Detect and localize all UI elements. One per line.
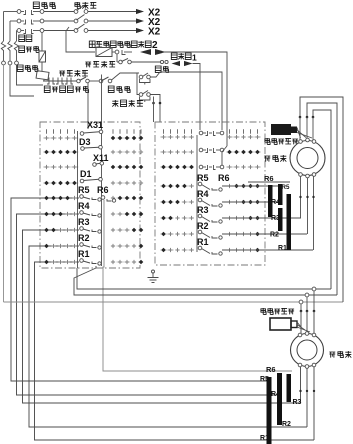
left bus phase wire L3 vertical xyxy=(16,31,18,42)
svg-text:R1: R1 xyxy=(260,435,269,442)
svg-text:X2: X2 xyxy=(148,27,161,38)
row trace R2 right group xyxy=(111,245,139,247)
junction nodes motor1 stator xyxy=(299,116,302,119)
wire grey phase run y=302 xyxy=(4,301,344,303)
wire coil to overcurrent contact chain xyxy=(44,80,46,82)
row trace R4 right group xyxy=(111,213,139,215)
symbol row y=218 right box left group xyxy=(161,216,166,221)
label button xyxy=(155,66,161,72)
connector circle on wire y=295 xyxy=(305,293,309,297)
symbol row y=186 right box left group xyxy=(161,184,166,189)
row trace y=250 right box left group xyxy=(160,249,194,251)
svg-text:R2: R2 xyxy=(197,221,209,231)
off-page arrow left (appendix 1) xyxy=(172,61,181,66)
phase wire L1 continues down (grey) xyxy=(3,65,5,302)
wire aux A to right node xyxy=(151,72,223,130)
three-phase overhead loop middle xyxy=(307,103,337,295)
fuse F2 (horizontal with diagonal) xyxy=(96,48,112,57)
symbol row y=167 right box right group xyxy=(227,165,231,169)
svg-text:R3: R3 xyxy=(293,399,302,406)
arrow to X2 row 3 xyxy=(136,28,144,33)
row trace D1 xyxy=(43,182,79,184)
overcurrent relay heater element xyxy=(14,41,18,61)
motor 1 outer circle xyxy=(290,141,325,176)
wire rotor tap row y=198 left run and down to bottom bank xyxy=(11,198,270,381)
symbol row X31 left group xyxy=(44,136,48,140)
wire junction vertical xyxy=(153,97,155,123)
contactor main contact row 2 xyxy=(17,19,21,23)
symbol row R3 left group xyxy=(44,228,49,233)
contactor aux contact B xyxy=(139,93,143,97)
terminal circle on phase wire xyxy=(15,61,19,65)
row trace D3 xyxy=(43,151,79,153)
contactor main contact row 1 xyxy=(17,10,21,14)
symbol row y=250 right box left group xyxy=(161,248,166,253)
label emergency switch xyxy=(59,71,65,76)
symbol row y=167 right box left group xyxy=(161,165,166,170)
wire from row3 down to fuse xyxy=(41,33,43,52)
label fuse-contactor note xyxy=(89,41,95,47)
row trace R5 right group xyxy=(111,197,139,199)
svg-text:R1: R1 xyxy=(197,237,209,247)
brake magnet 1 wires xyxy=(297,128,301,139)
push button contacts xyxy=(160,60,163,63)
position header ticks left box xyxy=(46,129,48,133)
brake electromagnet 1 (solid) xyxy=(271,124,291,135)
svg-text:R4: R4 xyxy=(78,201,90,211)
wire phase row 1 from left bus xyxy=(4,11,20,13)
label knife switch xyxy=(75,2,80,9)
symbol row y=152 right box left group xyxy=(161,150,165,154)
phase wire L3 stub down xyxy=(17,65,44,85)
link row2-row3 right circles xyxy=(221,152,223,165)
wire left box rail down, turns right y=289 xyxy=(77,268,331,289)
emergency switch contact 1 xyxy=(77,79,81,83)
label see appendix 1 xyxy=(171,53,177,59)
wire branch down to aux contact B xyxy=(137,73,139,95)
symbol row R4 left group xyxy=(44,212,49,217)
wire rotor tap row y=214 left run and down to bottom bank xyxy=(17,214,281,395)
brake magnet 2 wires xyxy=(297,322,301,327)
symbol row X11 left group xyxy=(44,165,48,169)
brake electromagnet 2 (outline) xyxy=(270,318,291,330)
symbol row y=152 right box right group xyxy=(227,150,232,155)
symbol row y=137 right box right group xyxy=(227,135,231,139)
wire fuse to relay coil xyxy=(41,62,43,71)
off-page arrow right (appendix 1) xyxy=(184,61,193,66)
svg-text:R5: R5 xyxy=(197,173,209,183)
symbol row y=202 right box left group xyxy=(161,200,166,205)
junction node xyxy=(159,102,162,105)
contactor main contact row 3 xyxy=(17,29,21,33)
rotor plug marks motor2 xyxy=(299,390,301,392)
symbol row y=234 right box left group xyxy=(161,232,166,237)
resistor bar C bottom bank xyxy=(287,374,292,402)
motor 2 outer circle xyxy=(291,334,324,367)
row trace y=152 right box right group xyxy=(226,151,261,153)
symbol row y=218 right box right group xyxy=(227,216,231,220)
label hatch switch xyxy=(85,62,91,67)
symbol row R1 left group xyxy=(44,260,49,265)
symbol row D3 right group xyxy=(111,150,115,154)
wire phase row 2 from left bus xyxy=(10,20,19,22)
wire rotor tap row y=246 left run and down to bottom bank xyxy=(29,246,307,427)
row trace y=186 right box left group xyxy=(160,185,194,187)
wire node x227 slant to row2 xyxy=(222,146,227,152)
wire row 3 to knife switch xyxy=(44,30,75,32)
svg-text:R6: R6 xyxy=(218,173,230,183)
svg-text:R5: R5 xyxy=(282,184,290,191)
wire R5 tap xyxy=(222,185,280,187)
symbol row R2 left group xyxy=(44,244,49,249)
rotor plug marks motor1 xyxy=(299,196,301,198)
label brake electromagnet 2 xyxy=(261,308,266,314)
rail in right box (x=197) xyxy=(196,135,198,252)
label overcurrent relay xyxy=(19,35,25,41)
stator wires down to motor1 xyxy=(299,117,301,140)
overcurrent relay heater element xyxy=(1,41,5,61)
wire row 1 to connector X2 xyxy=(88,11,136,13)
label motor 1 xyxy=(264,156,270,162)
label brake electromagnet 1 xyxy=(265,138,270,144)
resistor bar A bottom bank xyxy=(267,377,272,444)
motor 1 top terminals xyxy=(299,140,303,144)
row trace X31 xyxy=(43,137,79,139)
arrow to X2 row 1 xyxy=(136,9,144,14)
wire R3 tap to motor1 rotor xyxy=(222,217,301,219)
symbol row D1 left group xyxy=(44,181,49,186)
svg-text:R1: R1 xyxy=(78,249,90,259)
junction node xyxy=(152,102,155,105)
contactor aux contact A xyxy=(139,75,143,79)
contact row 3 in right box (unlabeled) xyxy=(199,165,203,169)
label contactor (aux contacts) xyxy=(108,86,114,92)
motor2 stator feed wires down xyxy=(313,291,315,311)
row trace y=234 right box left group xyxy=(160,233,194,235)
motor 1 inner circle xyxy=(297,148,318,169)
row trace y=167 right box right group xyxy=(226,166,261,168)
rail in left box (x=101.5) xyxy=(101,131,103,266)
symbol row y=202 right box right group xyxy=(227,200,231,204)
symbol row y=186 right box right group xyxy=(227,184,231,188)
svg-text:R6: R6 xyxy=(266,365,276,374)
three-phase overhead loop outer xyxy=(300,97,343,302)
wire rotor tap row y=262 left run and down to bottom bank xyxy=(35,262,315,440)
wire from fuse contact down to hatch row xyxy=(116,54,118,62)
label overcurrent relay contacts xyxy=(44,86,50,92)
symbol row R4 right group xyxy=(111,212,115,216)
wire from arrow right to node, turns down at x=227 xyxy=(162,52,227,146)
svg-text:R6: R6 xyxy=(97,185,109,195)
fuse F1 (vertical) xyxy=(39,51,46,62)
wire button row to node, down at x=200 xyxy=(193,64,201,131)
svg-text:1: 1 xyxy=(192,53,197,63)
symbol row y=250 right box right group xyxy=(227,248,231,252)
motor 2 inner circle xyxy=(297,340,317,360)
symbol row y=137 right box left group xyxy=(161,135,165,139)
left bus phase wire L1 vertical xyxy=(3,12,5,42)
junction nodes motor2 stator xyxy=(300,310,303,313)
connector circle on wire y=302 xyxy=(299,300,303,304)
left bus phase wire L2 vertical xyxy=(9,21,11,41)
relay coil (tilted box) xyxy=(36,71,49,80)
row trace y=137 right box right group xyxy=(226,136,261,138)
wire R1 tap to motor1 rotor xyxy=(222,249,313,251)
contact row 2 in right box (unlabeled) xyxy=(199,148,203,152)
terminal circle on phase wire xyxy=(8,61,12,65)
svg-text:X31: X31 xyxy=(87,120,103,130)
label contactor (coil column) xyxy=(17,65,23,71)
wire row 1 to knife switch xyxy=(44,11,75,13)
wire R4 tap xyxy=(222,201,280,203)
row trace y=137 right box left group xyxy=(160,136,194,138)
svg-text:R2: R2 xyxy=(270,232,279,239)
arrow to X2 row 2 xyxy=(136,18,144,23)
phase wire L2 stub down xyxy=(10,65,34,96)
svg-text:R4: R4 xyxy=(197,189,209,199)
overcurrent relay contact chain xyxy=(43,80,77,82)
symbol row X11 right group xyxy=(111,165,116,170)
wire fuse to contact xyxy=(112,51,115,53)
label limit switch xyxy=(112,100,118,107)
svg-text:R4: R4 xyxy=(271,391,280,398)
wire row 2 to connector X2 xyxy=(88,20,136,22)
svg-text:R2: R2 xyxy=(78,233,90,243)
hatch switch contact xyxy=(117,61,119,63)
svg-text:D3: D3 xyxy=(79,137,91,147)
motor1 rotor wires down xyxy=(300,177,302,219)
symbol row y=234 right box right group xyxy=(227,232,231,236)
svg-text:D1: D1 xyxy=(80,169,92,179)
wire R2 tap to motor1 rotor xyxy=(222,233,307,235)
svg-text:R3: R3 xyxy=(78,217,90,227)
wire knife linkage down to fuse row xyxy=(66,27,95,52)
contact row 1 in right box (unlabeled) xyxy=(199,131,203,135)
symbol row X31 right group xyxy=(111,136,116,141)
svg-text:R1: R1 xyxy=(278,245,287,252)
label contactor (main contacts) xyxy=(33,2,39,9)
overcurrent relay heater element xyxy=(8,41,12,61)
symbol row R5 left group xyxy=(44,196,49,201)
resistor bar 2 top bank (two segments) xyxy=(278,184,283,205)
motor 1 bottom terminals xyxy=(299,173,303,177)
svg-text:R5: R5 xyxy=(78,185,90,195)
wire rotor tap row y=230 left run and down to bottom bank xyxy=(23,230,302,403)
wire row 2 to knife switch xyxy=(44,20,75,22)
symbol row R5 right group xyxy=(111,196,115,200)
knife switch blade row 1 xyxy=(74,10,78,14)
motor 2 bottom terminals xyxy=(298,363,302,367)
resistor bar 3 top bank xyxy=(287,194,292,250)
row trace y=167 right box left group xyxy=(160,166,194,168)
resistor bar 1 top bank xyxy=(268,185,273,217)
row trace R1 right group xyxy=(111,261,139,263)
knife switch blade row 3 xyxy=(74,29,78,33)
symbol row R2 right group xyxy=(111,244,115,248)
off-page arrow left (to appendix 2) xyxy=(140,49,151,55)
wire R6 column down (grey) to bottom bank xyxy=(103,200,292,371)
ground symbol xyxy=(152,270,155,273)
controller contact table right box (dash-dot border) xyxy=(155,122,265,265)
label motor 2 xyxy=(329,352,335,358)
symbol row D1 right group xyxy=(111,181,115,185)
row trace R3 right group xyxy=(111,229,139,231)
svg-text:R4: R4 xyxy=(271,199,280,206)
wires down into left box (to X31/D3) xyxy=(87,83,89,129)
wire emergency to contactor aux row xyxy=(112,73,140,80)
row trace y=152 right box left group xyxy=(160,151,194,153)
wire aux B down into box xyxy=(151,95,161,123)
wire left box rail 2 down, turns right y=295 xyxy=(74,266,337,295)
symbol row D3 left group xyxy=(44,150,49,155)
svg-text:R3: R3 xyxy=(271,215,280,222)
emergency switch contact 2 xyxy=(99,79,103,83)
rail in left box (x=77.5) xyxy=(77,131,79,268)
connector circle on wire y=289 xyxy=(312,287,316,291)
symbol row R1 right group xyxy=(111,260,115,264)
row trace X11 xyxy=(43,166,79,168)
resistor bar B bottom bank xyxy=(277,373,282,425)
off-page arrow right (to appendix 2) xyxy=(155,49,166,55)
row trace y=218 right box left group xyxy=(160,217,194,219)
terminal circle on phase wire xyxy=(2,61,6,65)
controller contact table left box (dash-dot border) xyxy=(40,122,140,268)
motor2 rotor wires down xyxy=(300,367,302,403)
svg-text:R3: R3 xyxy=(197,205,209,215)
svg-text:R2: R2 xyxy=(282,421,291,428)
wire row 3 to connector X2 xyxy=(88,30,136,32)
row trace y=202 right box left group xyxy=(160,201,194,203)
knife switch blade row 2 xyxy=(74,19,78,23)
three-phase overhead loop inner xyxy=(313,110,331,289)
symbol row R3 right group xyxy=(111,228,115,232)
svg-text:R6: R6 xyxy=(264,174,274,183)
wire hatch row to button xyxy=(131,61,160,63)
motor 2 top terminals xyxy=(298,333,302,337)
position header ticks right box xyxy=(163,129,165,133)
wire phase row 3 from left bus xyxy=(17,30,20,32)
wire R6 top of bank xyxy=(248,181,290,183)
